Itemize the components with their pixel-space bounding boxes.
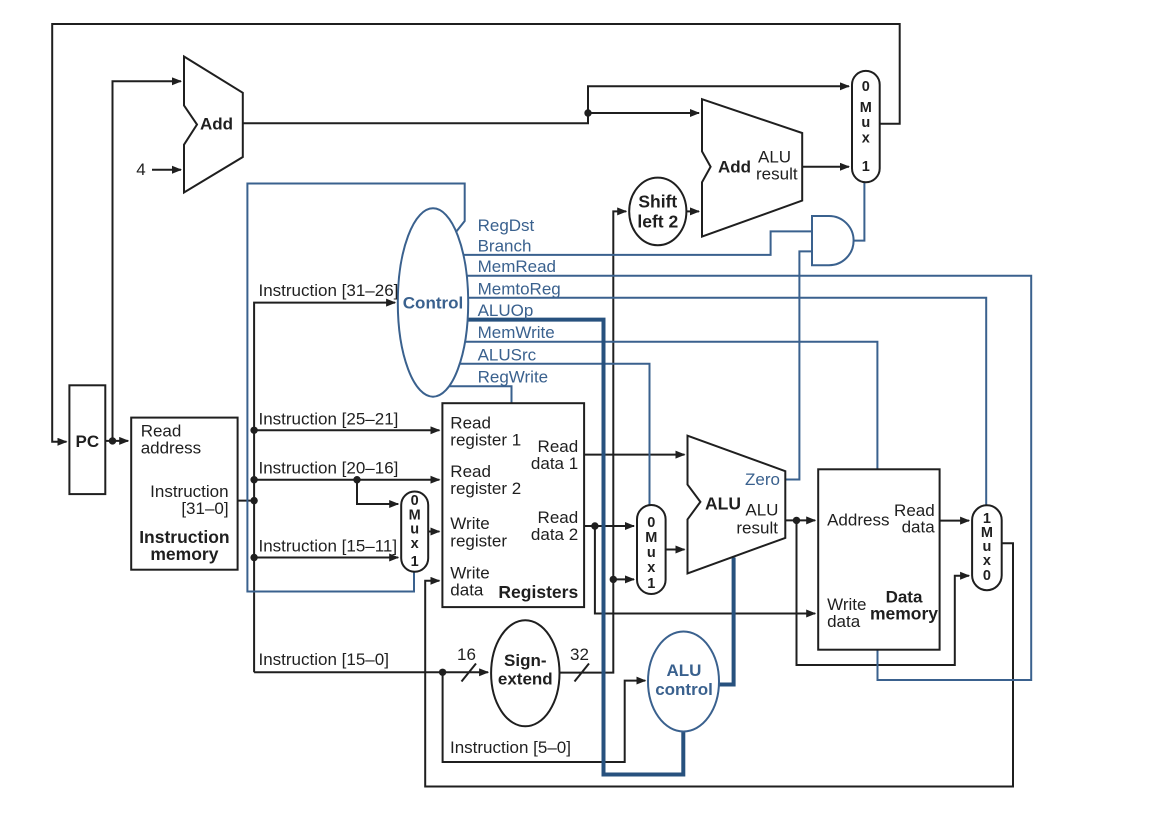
svg-text:register 2: register 2 <box>450 479 521 498</box>
registers box <box>442 403 584 607</box>
svg-text:PC: PC <box>75 432 99 451</box>
bit width slash 16 <box>462 664 477 682</box>
svg-text:data: data <box>450 581 484 600</box>
svg-text:Address: Address <box>827 511 889 530</box>
svg-text:x: x <box>411 536 419 552</box>
svg-text:u: u <box>861 115 870 131</box>
label ALU mux 0 Mux 1 <box>645 515 657 592</box>
wire AND gate output to top mux select <box>854 183 865 241</box>
label RegDst <box>478 216 561 387</box>
svg-text:Instruction [5–0]: Instruction [5–0] <box>450 738 571 757</box>
wire RegWrite control to Registers <box>445 386 512 404</box>
svg-text:0: 0 <box>862 79 870 95</box>
svg-text:RegWrite: RegWrite <box>478 368 549 387</box>
instruction memory box <box>131 418 237 570</box>
svg-text:result: result <box>736 519 778 538</box>
svg-text:result: result <box>756 164 798 183</box>
svg-text:Instruction [25–21]: Instruction [25–21] <box>259 409 399 428</box>
adder Add (branch target) <box>702 99 802 236</box>
svg-text:x: x <box>647 560 655 576</box>
wire read data 1 to ALU input 1 <box>584 454 684 456</box>
wire MemRead control to data memory <box>450 276 1031 680</box>
svg-text:ALU: ALU <box>745 500 778 519</box>
svg-text:ALU: ALU <box>667 661 702 680</box>
svg-text:Zero: Zero <box>745 470 780 489</box>
label top mux 0 Mux 1 <box>860 79 872 175</box>
svg-text:M: M <box>860 100 872 116</box>
junction dot read data 2 branch <box>591 522 598 529</box>
ellipse Control unit <box>398 208 468 396</box>
svg-text:Instruction [31–26]: Instruction [31–26] <box>259 281 399 300</box>
svg-text:0: 0 <box>647 515 655 531</box>
svg-text:memory: memory <box>870 604 938 624</box>
wire shift left 2 output to adder input <box>686 210 699 212</box>
wire RegDst control to write-register mux select <box>247 184 464 592</box>
svg-text:RegDst: RegDst <box>478 216 535 235</box>
junction dot bus instruction 25-21 <box>250 427 257 434</box>
junction dot PC+4 branch <box>584 109 591 116</box>
AND gate (branch) <box>812 216 854 265</box>
svg-text:Control: Control <box>403 293 463 312</box>
svg-text:x: x <box>983 553 991 569</box>
wire Add output PC+4 to top mux input 0 <box>243 86 849 123</box>
svg-text:memory: memory <box>150 544 218 564</box>
svg-text:Branch: Branch <box>478 236 532 255</box>
svg-text:u: u <box>647 545 656 561</box>
svg-text:ALUOp: ALUOp <box>478 301 534 320</box>
svg-text:register: register <box>450 532 507 551</box>
wire PC output up to Add input <box>113 81 182 441</box>
wire constant 4 into Add <box>152 169 181 171</box>
svg-text:x: x <box>862 131 870 147</box>
wire Instruction 25-21 to read register 1 <box>254 429 439 431</box>
svg-text:data 1: data 1 <box>531 454 578 473</box>
ellipse shift left 2 <box>629 178 686 246</box>
bit width slash 32 <box>575 664 590 682</box>
svg-text:1: 1 <box>411 554 419 570</box>
wire Instruction 5-0 to ALU control <box>443 672 646 762</box>
wire ALU result to data memory address <box>785 519 815 521</box>
mux ALU source <box>637 505 666 594</box>
svg-text:extend: extend <box>498 670 553 689</box>
svg-text:Write: Write <box>450 514 489 533</box>
wire Instruction 15-0 to sign extend <box>254 671 488 673</box>
wire Instruction 20-16 to read register 2 <box>254 479 439 481</box>
wire memory read data to right mux input 1 <box>940 520 970 522</box>
svg-text:Instruction [15–0]: Instruction [15–0] <box>259 650 389 669</box>
svg-text:control: control <box>655 680 713 699</box>
svg-text:data: data <box>827 612 861 631</box>
svg-text:register 1: register 1 <box>450 431 521 450</box>
wire branch adder ALU result to top mux input 1 <box>802 166 849 168</box>
junction dot bus instruction 15-11 <box>250 554 257 561</box>
wire sign extend output up to shift left 2 <box>559 211 626 672</box>
wire write-back from right mux around bottom to Registers write data <box>425 543 1013 786</box>
ellipse sign extend <box>491 620 559 726</box>
wire instruction bus vertical and Instruction 31-26 to Control <box>254 303 395 673</box>
wire Branch control to AND gate <box>450 231 813 255</box>
wire ALUSrc control to ALU mux select <box>448 364 650 506</box>
wire ALU control output to ALU <box>719 558 734 685</box>
ellipse ALU control unit <box>648 632 719 732</box>
svg-text:MemtoReg: MemtoReg <box>478 279 561 298</box>
wire PC output to instruction memory read address <box>105 440 128 442</box>
svg-text:Instruction [15–11]: Instruction [15–11] <box>259 537 398 556</box>
wire Instruction 20-16 branch to write-register mux input 0 <box>357 480 398 504</box>
mux write register <box>401 492 428 572</box>
svg-text:M: M <box>645 530 657 546</box>
wire write-register mux output to Registers <box>428 531 439 533</box>
svg-text:address: address <box>141 439 201 458</box>
junction dot ALU result branch <box>793 517 800 524</box>
svg-text:4: 4 <box>136 160 145 179</box>
svg-text:0: 0 <box>983 568 991 584</box>
svg-text:ALUSrc: ALUSrc <box>478 345 537 364</box>
wire ALUOp control to ALU control unit <box>450 320 683 775</box>
wire Instruction 15-11 to write-register mux input 1 <box>254 557 398 559</box>
svg-text:data: data <box>902 518 936 537</box>
mux PC source (top right) <box>852 71 880 182</box>
svg-text:Add: Add <box>718 158 751 177</box>
svg-text:Shift: Shift <box>638 192 677 212</box>
junction dot PC output <box>109 437 116 444</box>
svg-text:Instruction [20–16]: Instruction [20–16] <box>259 459 399 478</box>
wire MemtoReg control to right mux select <box>450 298 986 506</box>
adder Add (PC+4) <box>184 57 243 193</box>
wire PC+4 branch to second adder top input <box>588 112 699 114</box>
wire ALU mux output to ALU input 2 <box>666 549 685 551</box>
svg-text:1: 1 <box>647 576 655 592</box>
svg-text:Sign-: Sign- <box>504 651 547 670</box>
svg-text:MemWrite: MemWrite <box>478 323 555 342</box>
wire Zero flag from ALU to AND gate <box>785 251 812 479</box>
svg-text:32: 32 <box>570 645 589 664</box>
svg-text:[31–0]: [31–0] <box>181 499 228 518</box>
svg-text:16: 16 <box>457 645 476 664</box>
ALU <box>688 436 786 574</box>
mux memory to register <box>972 505 1002 590</box>
svg-text:ALU: ALU <box>705 494 741 514</box>
register PC <box>69 385 105 494</box>
wire MemWrite control to data memory <box>450 342 877 471</box>
junction dot instruction 20-16 branch <box>353 476 360 483</box>
wire instruction memory output to bus <box>238 500 255 502</box>
svg-text:left 2: left 2 <box>637 212 678 232</box>
junction dot sign extend to ALU mux <box>610 576 617 583</box>
junction dot instruction 15-0 / 5-0 <box>439 669 446 676</box>
label write register mux 0 Mux 1 <box>409 493 421 570</box>
svg-text:Add: Add <box>200 115 233 134</box>
svg-text:MemRead: MemRead <box>478 257 556 276</box>
svg-text:data 2: data 2 <box>531 525 578 544</box>
svg-text:Registers: Registers <box>498 582 578 602</box>
wire PC feedback loop from top mux around top border to PC input <box>52 24 900 442</box>
wire sign extend tap to ALU mux input 1 <box>613 578 634 580</box>
junction dot bus instruction output <box>250 497 257 504</box>
junction dot bus instruction 20-16 <box>250 476 257 483</box>
svg-text:1: 1 <box>862 159 870 175</box>
wire read data 2 branch to data memory write data <box>595 526 815 614</box>
wire ALU result branch to right mux input 0 <box>797 520 970 665</box>
wire read data 2 to ALU mux input 0 <box>584 525 634 527</box>
label right mux 1 Mux 0 <box>981 511 993 584</box>
data memory box <box>818 469 939 649</box>
